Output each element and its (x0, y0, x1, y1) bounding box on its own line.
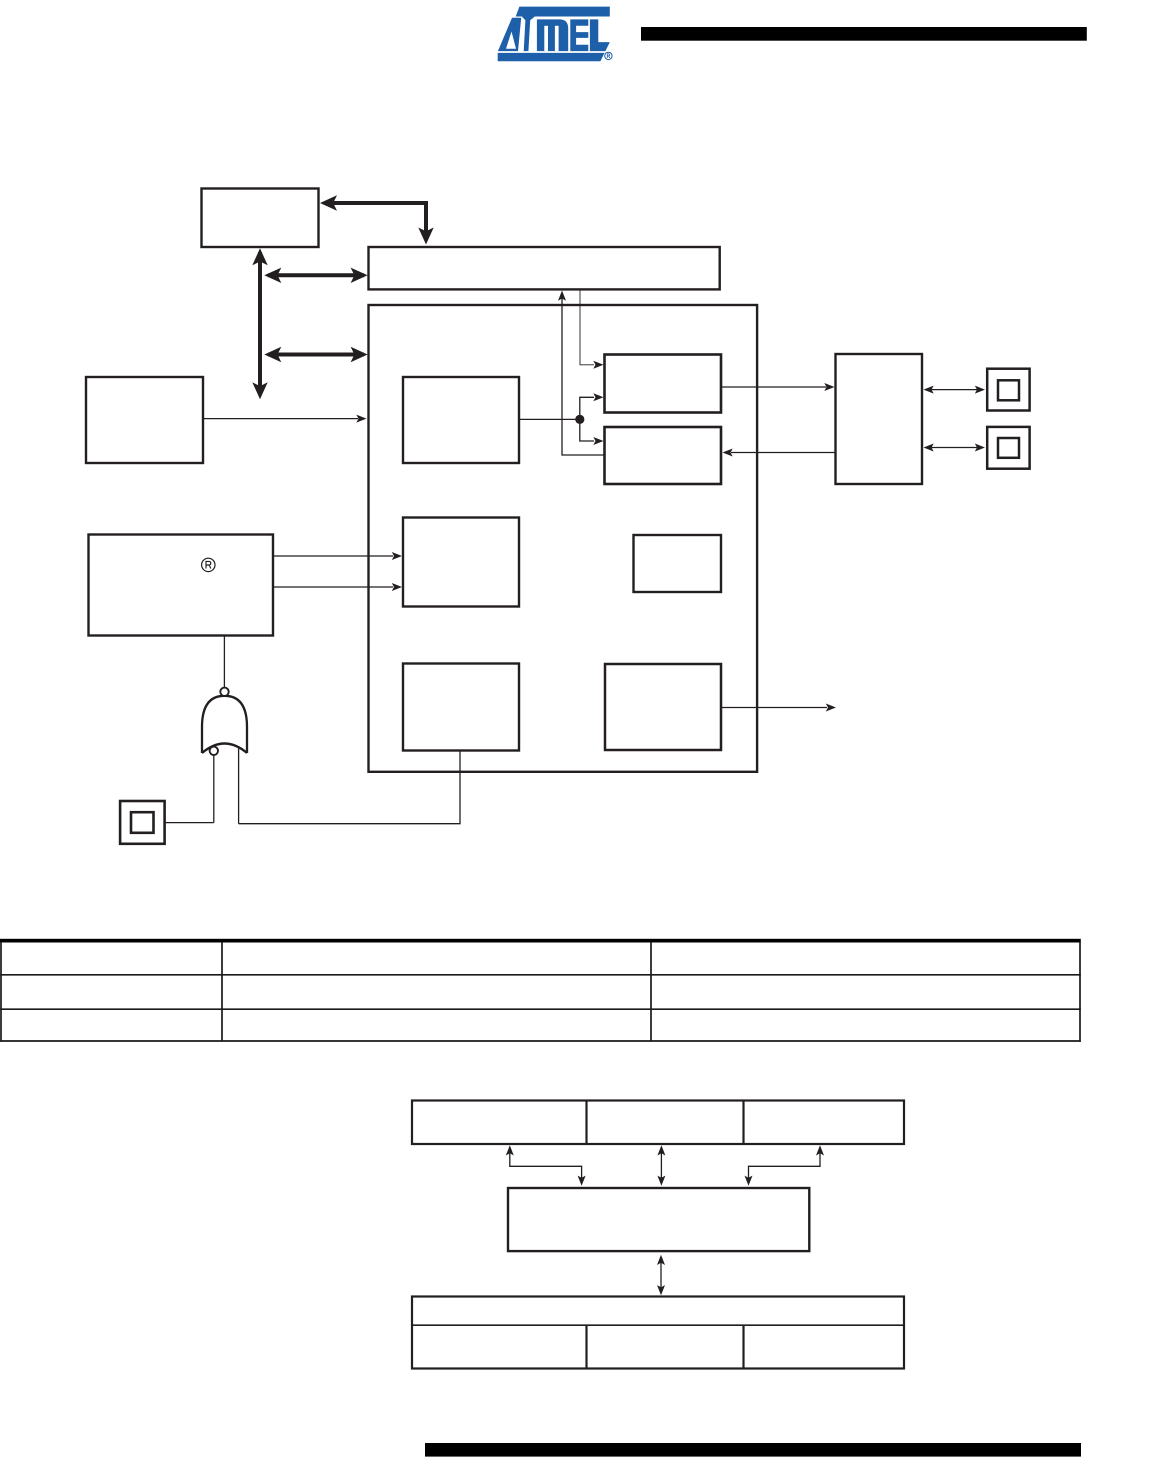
wire bus to box A (thin gray) (580, 290, 604, 369)
pad P3 inner (131, 812, 154, 833)
bus box (data bus) (369, 247, 720, 289)
thick arrow box SRAM to bus box (320, 195, 434, 244)
pad P1 inner (998, 380, 1019, 400)
box C1 (instruction register) (403, 377, 519, 463)
bottom strip box (412, 1297, 904, 1369)
wire box A to tall box (721, 383, 835, 391)
gate G1 body (NOR, pointing up) (202, 696, 247, 753)
footer bar (425, 1443, 1081, 1457)
wire left box to container (203, 415, 367, 423)
bottom diagram: top strip box (412, 1101, 904, 1145)
wire tall box to box B (723, 449, 836, 457)
container box (CPU core) (369, 305, 758, 772)
box U1 (oscillator, registered mark box) (89, 535, 274, 636)
connector right (down arrow / up arrow) (745, 1145, 825, 1186)
pad P3 outer (reset pad) (120, 801, 165, 844)
box E (status register) (634, 535, 722, 592)
bottom strip divider 2 (742, 1325, 744, 1368)
pad P1 outer (987, 369, 1029, 411)
top strip divider 1 (585, 1101, 587, 1145)
connector left (up arrow / down arrow) (506, 1145, 586, 1186)
wire box U1 to box C2 (lower) (273, 583, 402, 591)
middle box (508, 1188, 809, 1251)
table grid (0, 942, 1081, 1042)
wire box C1 to node (519, 418, 580, 420)
box A (register file) (605, 355, 722, 413)
top strip divider 2 (742, 1101, 744, 1145)
wire box U1 to box C2 (upper) (273, 552, 402, 560)
tall box (port driver) (836, 354, 923, 484)
thick horizontal double arrow lower (264, 347, 367, 362)
wire gate left input (213, 755, 215, 822)
gate G1 input bubble (210, 747, 218, 755)
header bar (641, 27, 1087, 41)
connector middle (double arrow) (657, 1145, 665, 1186)
node junction dot (575, 415, 584, 424)
double arrow middle box to bottom strip (657, 1255, 665, 1296)
Atmel logo (498, 7, 612, 62)
wire pad P3 to gate left input (165, 822, 214, 824)
table top bold rule (0, 939, 1081, 943)
wire box B to bus (up arrow) (558, 291, 604, 456)
bottom strip divider 1 (585, 1325, 587, 1368)
wire node to box A (580, 393, 604, 419)
thick horizontal double arrow upper (264, 268, 367, 283)
wire box U1 to gate output (223, 636, 225, 688)
left box (program flash) (86, 377, 203, 463)
box D (ALU) (403, 664, 519, 751)
registered trademark glyph in box U1 (202, 558, 215, 571)
gate G1 output bubble (220, 688, 228, 696)
wire gate right input from box D (239, 749, 460, 824)
double arrow tall box to pad P1 (924, 386, 986, 394)
box SRAM (top left) (202, 189, 319, 248)
pad P2 outer (987, 427, 1029, 469)
box B (SRAM block) (605, 427, 722, 484)
wire box F output (721, 704, 836, 712)
box F (program counter) (605, 664, 721, 750)
wire node to box B (580, 419, 604, 445)
thick vertical double arrow (bus) (252, 248, 267, 399)
box C2 (instruction decoder) (403, 518, 519, 607)
pad P2 inner (998, 438, 1019, 458)
bottom strip horizontal divider (412, 1324, 904, 1326)
double arrow tall box to pad P2 (924, 444, 986, 452)
